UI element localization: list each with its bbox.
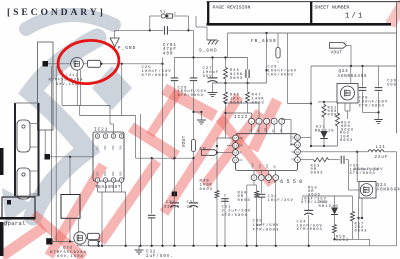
svg-text:AONR664: AONR664: [377, 189, 400, 193]
title block mid divider: [310, 2, 312, 25]
wire Q21 to right: [101, 63, 163, 65]
node railA c27: [211, 56, 213, 58]
capacitor C25: [174, 58, 176, 78]
wire pin11 jog: [291, 144, 295, 146]
svg-text:VDD: VDD: [239, 137, 244, 140]
svg-text:11: 11: [296, 144, 300, 147]
wire srv bus: [62, 105, 110, 107]
wire FB net: [300, 159, 314, 161]
svg-text:XTR/0805: XTR/0805: [222, 213, 248, 218]
wire drop x121: [121, 64, 123, 116]
svg-text:XTR/0603: XTR/0603: [142, 73, 169, 78]
pad Q22 gate: [46, 238, 52, 244]
wire IC21 drop A: [101, 192, 103, 246]
svg-text:0603: 0603: [311, 172, 324, 176]
node q22 o1: [98, 240, 100, 242]
wire IC22 top pin 3 stub: [266, 124, 268, 134]
wire Q21 drain: [48, 63, 71, 65]
svg-text:400: 400: [163, 52, 174, 57]
pin IC21 top 6: [111, 134, 116, 139]
transformer core bar right: [38, 103, 40, 196]
pin IC22 top 1: [249, 118, 255, 124]
svg-text:AONR66406: AONR66406: [338, 75, 368, 79]
pin IC21 bottom 1: [95, 178, 100, 183]
svg-text:13: 13: [234, 159, 238, 162]
aux winding box: [2, 197, 35, 218]
wire pin12 net: [300, 137, 311, 139]
ferrite bead FB: [277, 33, 279, 48]
wire gate bus: [79, 106, 81, 116]
wire IC22 pin5 col: [253, 181, 255, 185]
pin IC22 right 10: [295, 149, 301, 155]
pin IC21 top 8: [95, 134, 100, 139]
node bus x102: [101, 245, 103, 247]
wire left col x51: [51, 66, 53, 242]
node X1 right: [187, 29, 189, 31]
pin IC22 right 11: [295, 142, 301, 148]
svg-text:X1: X1: [160, 11, 166, 15]
svg-text:0603: 0603: [355, 230, 368, 234]
wire q22 src pair: [77, 244, 79, 246]
svg-text:DRB: DRB: [119, 145, 122, 150]
wire r51 net: [318, 101, 338, 103]
svg-text:500: 500: [387, 83, 397, 87]
ground right: [374, 119, 383, 121]
svg-text:0603: 0603: [230, 77, 243, 81]
red inspection circle: [56, 37, 121, 86]
svg-text:RB1210: RB1210: [315, 129, 335, 133]
diode D22: [334, 196, 336, 208]
op-amp IC21 box: [93, 132, 124, 181]
svg-text:VCC: VCC: [239, 159, 244, 162]
svg-text:IP6550: IP6550: [268, 179, 306, 185]
pad C31 plus: [172, 192, 177, 197]
svg-text:XTR/0603: XTR/0603: [297, 227, 323, 232]
wire S_GND: [195, 16, 197, 27]
wire spare col: [287, 33, 289, 104]
transformer core bar left: [14, 103, 16, 196]
wire sec out: [50, 156, 93, 158]
svg-text:EN: EN: [239, 152, 243, 155]
svg-text:Q24: Q24: [377, 184, 387, 188]
wire IC22 bottom stub 7: [268, 171, 270, 175]
node d22 bus: [333, 238, 335, 240]
node bus x140.5: [139, 245, 141, 247]
pin IC22 top 4: [271, 118, 277, 124]
node Q21 out2: [121, 63, 123, 65]
node railA r45: [224, 56, 226, 58]
svg-text:Q23: Q23: [339, 70, 349, 74]
node q24 s2: [361, 217, 363, 219]
wire C31c col: [224, 198, 226, 246]
wire r53 to c30: [329, 159, 340, 161]
svg-text:22uF: 22uF: [375, 156, 389, 160]
svg-text:10uF/35V: 10uF/35V: [268, 198, 294, 203]
svg-text:XTR/0603: XTR/0603: [350, 171, 376, 176]
svg-text:2: 2: [174, 12, 177, 16]
net flag EN: [202, 150, 219, 156]
node en2: [216, 151, 218, 153]
capacitor C29: [362, 66, 364, 87]
wire CY01 to C25 col: [189, 29, 194, 31]
capacitor CY01: [150, 29, 163, 31]
pin IC21 bottom 2: [103, 178, 108, 183]
wire q23 drain: [350, 66, 352, 84]
transformer bottom edge: [15, 195, 39, 197]
svg-text:DRB: DRB: [112, 145, 115, 150]
capacitor C32: [148, 214, 156, 216]
wire q22 out: [98, 242, 100, 246]
node bus x162.5: [161, 245, 163, 247]
svg-text:IC22: IC22: [234, 115, 248, 120]
node bus x125.7: [125, 245, 127, 247]
capacitor C31b: [193, 158, 195, 202]
node q22 in: [69, 240, 71, 242]
wire IC22 top pin 5 stub: [281, 124, 283, 134]
wire IC22 top pin 2 stub: [258, 124, 260, 134]
wire q24 gate: [348, 160, 350, 190]
title block top border: [207, 1, 400, 3]
node r51 top: [323, 101, 325, 103]
node d21: [323, 145, 325, 147]
svg-text:SRA: SRA: [112, 171, 115, 176]
wire d21 bottom: [323, 139, 325, 147]
wire d21 link: [310, 138, 312, 147]
inductor L21: [357, 151, 368, 153]
svg-text:VIN: VIN: [259, 163, 262, 168]
pin IC22 right 9: [295, 157, 301, 163]
aux winding box 2: [61, 195, 80, 219]
wire IC22 top pin 1 stub: [251, 124, 253, 134]
wire IC21 drop B: [125, 192, 127, 246]
node bus x256.6: [255, 245, 257, 247]
wire pinrow a: [226, 102, 260, 104]
wire Q21 source pair: [76, 70, 78, 106]
wire IC22 bottom stub 8: [275, 171, 277, 175]
wire IC21 bottom bus: [98, 191, 126, 193]
wire EN to pin: [219, 152, 234, 154]
pin IC22 top 5: [279, 118, 285, 124]
node spare col: [310, 102, 312, 104]
node bus x308.7: [308, 245, 310, 247]
svg-text:0603: 0603: [200, 188, 213, 192]
wire IC22 pin16: [217, 137, 233, 139]
node mid2: [173, 157, 175, 159]
node vout feed: [350, 65, 352, 67]
svg-text:1: 1: [277, 61, 280, 64]
wire drop x151: [151, 158, 153, 214]
node d21 left: [310, 145, 312, 147]
transistor Q21: [71, 58, 84, 71]
node mid1: [151, 157, 153, 159]
wire R49 col: [216, 146, 218, 191]
resistor R51: [322, 105, 326, 118]
transistor Q22: [74, 232, 86, 244]
svg-text:DRA: DRA: [104, 145, 107, 150]
wire pinrow b: [226, 112, 252, 114]
svg-text:GND: GND: [97, 145, 100, 150]
svg-text:10nF/50V: 10nF/50V: [253, 223, 280, 228]
svg-text:IC21: IC21: [94, 128, 108, 133]
wire IC22 pin8 col: [275, 181, 277, 246]
svg-text:TEA1995T: TEA1995T: [95, 184, 121, 190]
svg-text:VOUT: VOUT: [331, 52, 343, 56]
pin IC21 top 5: [119, 134, 124, 139]
svg-text:0603: 0603: [340, 139, 353, 143]
node q24 s1: [357, 217, 359, 219]
wire X1 loop: [149, 16, 151, 30]
pin IC22 bottom 7: [266, 175, 272, 181]
node q22 o2: [98, 245, 100, 247]
wire vout rail right: [396, 152, 398, 246]
controller IC22 box: [236, 134, 298, 171]
svg-text:10: 10: [296, 151, 300, 154]
wire VOUT feed: [347, 44, 352, 46]
node bead out: [192, 157, 194, 159]
capacitor C28: [245, 70, 247, 79]
pin IC22 left 16: [233, 135, 239, 141]
svg-text:SRA: SRA: [104, 171, 107, 176]
pin IC22 bottom 6: [258, 175, 264, 181]
wire mid bus: [213, 82, 267, 84]
svg-text:1: 1: [216, 157, 219, 160]
transistor Q24: [359, 182, 376, 199]
pad to transformer pin: [43, 61, 49, 67]
shield box: [38, 42, 54, 130]
wire out mid net: [302, 195, 353, 197]
svg-text:C32: C32: [146, 250, 156, 254]
wire q23 source: [344, 103, 346, 111]
capacitor C30r: [378, 66, 380, 87]
node r46 b: [224, 112, 226, 114]
resistor R54: [337, 102, 339, 113]
svg-text:OVP: OVP: [239, 145, 244, 148]
ferrite bead output: [193, 138, 195, 140]
wire q24 src bus: [359, 217, 363, 219]
wire FB col: [266, 33, 268, 83]
spark gap X1: [161, 14, 165, 18]
node q24 drain: [356, 151, 358, 153]
node c29 top: [361, 65, 363, 67]
svg-text:XTR/0603: XTR/0603: [359, 103, 385, 108]
svg-text:SRB: SRB: [119, 171, 122, 176]
wire drop x140: [140, 114, 142, 246]
svg-text:SW: SW: [291, 151, 295, 154]
ground S_GND symbol: [207, 39, 217, 41]
svg-text:@paral: @paral: [4, 221, 26, 227]
pin IC22 left 13: [233, 157, 239, 163]
connector pad left lower: [0, 222, 4, 256]
svg-text:VIN: VIN: [266, 163, 269, 168]
capacitor C27: [212, 58, 214, 78]
svg-text:XTR/0603: XTR/0603: [178, 93, 204, 98]
wire IC22 top pin 4 stub: [273, 124, 275, 134]
winding W2 taps: [30, 170, 39, 172]
svg-text:FB: FB: [291, 159, 295, 162]
svg-text:S_GND: S_GND: [199, 48, 218, 54]
pin IC22 bottom 5: [251, 175, 257, 181]
svg-text:XTR/0603: XTR/0603: [253, 227, 280, 232]
svg-text:33: 33: [187, 205, 193, 209]
wire drop x162: [162, 58, 164, 246]
red INITIAL watermark: [2, 227, 44, 256]
node midbus a: [224, 82, 226, 84]
resistor R56: [333, 225, 337, 234]
node bus x225: [224, 245, 226, 247]
pad transformer mid: [45, 154, 51, 160]
wire IC22 bottom stub 5: [253, 171, 255, 175]
wire to P_GND: [114, 30, 116, 38]
svg-text:2: 2: [344, 42, 347, 45]
node bus x217: [216, 245, 218, 247]
node bus x151.7: [151, 245, 153, 247]
transformer top edge: [15, 102, 39, 104]
capacitor C34: [308, 196, 310, 210]
node bus x193.5: [192, 245, 194, 247]
svg-text:15: 15: [234, 145, 238, 148]
capacitor C31a: [174, 158, 176, 202]
wire IC21 bottom stubs: [97, 182, 99, 192]
node FB top: [265, 32, 267, 34]
wire c26 to bead: [193, 112, 195, 138]
pin IC22 left 15: [233, 143, 239, 149]
snubber on Q22: [88, 233, 100, 239]
node mid gnd b: [200, 111, 202, 113]
transistor Q23: [337, 84, 358, 104]
resistor R53: [314, 158, 329, 162]
node midbus b: [246, 82, 248, 84]
wire q22 in: [52, 241, 74, 243]
wire shield drop: [44, 130, 46, 154]
svg-text:L21: L21: [376, 146, 386, 150]
svg-text:[SECONDARY]: [SECONDARY]: [7, 7, 106, 18]
capacitor C35: [260, 181, 262, 194]
right frame border: [396, 2, 398, 133]
node Q21 out: [100, 63, 102, 65]
svg-text:0603: 0603: [238, 199, 251, 203]
pin IC22 top 3: [264, 118, 270, 124]
svg-text:60V,150A: 60V,150A: [57, 255, 84, 259]
winding W1 taps: [30, 123, 39, 125]
wire IC22 pin15 stub: [227, 145, 233, 147]
wire VOUT mid rail: [136, 157, 194, 159]
diode D21: [320, 131, 328, 139]
svg-text:SHEET NUMBER: SHEET NUMBER: [315, 4, 350, 10]
svg-text:PGND: PGND: [252, 162, 255, 169]
svg-text:16: 16: [234, 137, 238, 140]
resistor R50: [255, 191, 259, 198]
node Q21 out3: [161, 63, 163, 65]
wire aux2 to q22: [69, 218, 71, 241]
wire SW net: [300, 151, 358, 153]
svg-text:CMP: CMP: [265, 127, 268, 132]
wire cap gnd bus: [363, 111, 379, 113]
title block left divider: [207, 2, 209, 25]
resistor R45: [225, 58, 227, 68]
node sec out: [69, 156, 71, 158]
resistor R49: [215, 191, 219, 199]
winding W2: [17, 168, 30, 199]
svg-text:VCC: VCC: [97, 171, 100, 176]
connector pad left upper: [0, 148, 4, 175]
wire q24 drain stub: [356, 152, 358, 182]
node r46 a: [224, 102, 226, 104]
svg-text:FB_6550: FB_6550: [251, 38, 277, 44]
node capgnd: [377, 111, 379, 113]
node bus x174.5: [173, 245, 175, 247]
wire sec drop: [69, 157, 71, 195]
pin IC22 left 14: [233, 150, 239, 156]
svg-text:14: 14: [234, 152, 238, 155]
capacitor C30: [340, 156, 342, 164]
svg-text:SW: SW: [273, 165, 276, 169]
pin IC21 bottom 4: [119, 178, 124, 183]
pin IC22 top 2: [256, 118, 262, 124]
node X1 left: [149, 29, 151, 31]
capacitor C26: [193, 58, 195, 78]
node railA c26: [192, 56, 194, 58]
winding W1: [17, 120, 30, 152]
pin IC22 right 12: [295, 135, 301, 141]
wire left col x56: [55, 66, 57, 242]
wire q24 source: [358, 198, 360, 218]
pin IC21 top 7: [103, 134, 108, 139]
wire rail A: [175, 57, 248, 59]
resistor R46: [225, 83, 227, 92]
node mid gnd a: [192, 111, 194, 113]
svg-text:VOUT: VOUT: [182, 135, 187, 147]
snubber on Q21: [88, 60, 101, 67]
title block bottom thick bar: [207, 23, 392, 26]
svg-text:330uF: 330uF: [164, 205, 180, 209]
wire mid gnd bus: [194, 111, 202, 113]
pin IC21 bottom 3: [111, 178, 116, 183]
decorative gray watermark: [2, 15, 132, 224]
ground below C27: [212, 83, 214, 92]
wire q22 top: [78, 218, 80, 232]
node bus x275.7: [275, 245, 277, 247]
wire ground bus: [78, 245, 397, 247]
svg-text:0603: 0603: [336, 239, 349, 243]
node FB mid: [265, 69, 267, 71]
svg-text:C35: C35: [253, 220, 263, 224]
node en1: [216, 145, 218, 147]
svg-text:0603: 0603: [252, 101, 265, 105]
resistor R47: [247, 83, 249, 92]
svg-text:PAGE REVISION: PAGE REVISION: [213, 4, 251, 10]
resistor R57: [352, 196, 354, 212]
wire top rail: [228, 32, 397, 34]
svg-text:1/1: 1/1: [345, 13, 365, 21]
wire IC22 bottom stub 6: [260, 171, 262, 175]
node bus x246.8: [246, 245, 248, 247]
svg-text:1uF/50V.: 1uF/50V.: [146, 254, 174, 259]
net flag VOUT: [330, 43, 347, 49]
svg-text:12: 12: [296, 137, 300, 140]
ground mid: [200, 112, 202, 120]
ground P_GND symbol: [110, 38, 119, 47]
svg-text:C0G/0603: C0G/0603: [268, 72, 294, 77]
wire Q21 gate col: [61, 70, 63, 106]
wire lower right bus: [335, 238, 370, 240]
ground main: [138, 246, 140, 250]
pin IC22 bottom 8: [273, 175, 279, 181]
svg-text:P_GND: P_GND: [118, 45, 137, 51]
wire VOUT rail: [311, 65, 397, 67]
